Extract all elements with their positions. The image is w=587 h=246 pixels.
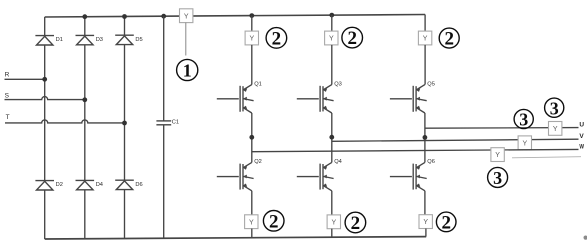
wire leg1 emitter down segment bbox=[251, 191, 253, 215]
svg-text:Q3: Q3 bbox=[334, 82, 342, 88]
wire input S with hop over column1 bbox=[5, 97, 85, 100]
svg-text:D2: D2 bbox=[56, 182, 63, 188]
diode D5 bbox=[115, 35, 134, 44]
callout circled 3 above U Y box bbox=[545, 98, 564, 118]
svg-text:D6: D6 bbox=[135, 182, 142, 188]
wire column2 lower segment bbox=[84, 190, 86, 239]
svg-text:2: 2 bbox=[269, 211, 279, 232]
diode D4 bbox=[76, 180, 95, 189]
svg-text:D3: D3 bbox=[96, 37, 103, 43]
scan speck bottom right edge bbox=[584, 236, 587, 240]
diode D2 bbox=[35, 181, 54, 190]
wire leg2 top segment bbox=[331, 15, 333, 31]
test point Y box bottom of leg1 bbox=[245, 215, 258, 229]
node leg2 midpoint dot bbox=[329, 135, 334, 140]
transistor Q5 bbox=[390, 85, 427, 113]
wire leg1 top segment bbox=[251, 16, 253, 32]
diode D6 bbox=[115, 180, 134, 189]
wire leg2 from Y box to Q3 collector bbox=[331, 45, 333, 85]
node dot top bus at column3 bbox=[122, 14, 127, 19]
callout circled 3 above V Y box bbox=[514, 109, 533, 129]
svg-text:D1: D1 bbox=[56, 37, 63, 43]
svg-text:3: 3 bbox=[519, 110, 528, 130]
svg-text:Q2: Q2 bbox=[254, 159, 262, 165]
diode D3 bbox=[76, 35, 95, 44]
callout circled 1 bbox=[177, 59, 198, 80]
callout circled 2 top leg1 bbox=[266, 28, 287, 50]
svg-text:Q5: Q5 bbox=[427, 82, 435, 88]
transistor Q6 bbox=[390, 162, 427, 190]
wire leg3 top segment bbox=[424, 15, 426, 32]
test point Y box top of leg3 bbox=[418, 31, 431, 45]
test point Y box bottom of leg2 bbox=[327, 215, 340, 229]
wire leg3 midpoint segment bbox=[424, 113, 426, 162]
transistor Q3 bbox=[297, 85, 334, 113]
callout circled 3 below W Y box bbox=[488, 167, 508, 188]
callout circled 2 bottom leg1 bbox=[263, 211, 284, 233]
wire column2 middle segment bbox=[84, 45, 86, 180]
node leg3 midpoint dot bbox=[423, 135, 428, 140]
wire leg2 emitter down segment bbox=[331, 191, 333, 215]
callout circled 2 bottom leg2 bbox=[345, 212, 366, 234]
test point Y box on U line bbox=[549, 121, 562, 135]
node T junction dot bbox=[122, 121, 127, 126]
wire leg2 midpoint segment bbox=[331, 113, 333, 162]
transistor Q1 bbox=[217, 85, 254, 113]
wire lead from Y box 1 down to circle 1 bbox=[185, 23, 187, 56]
test point Y box bottom of leg3 bbox=[419, 215, 432, 229]
wire top DC bus P rail bbox=[45, 15, 425, 18]
wire leg2 to bottom bus bbox=[331, 229, 333, 238]
wire column3 middle segment bbox=[124, 45, 126, 180]
node R junction dot bbox=[42, 77, 47, 82]
wire column1 middle segment bbox=[44, 45, 46, 180]
wire leg3 emitter down segment bbox=[424, 191, 426, 215]
wire leg3 to bottom bus corner bbox=[425, 229, 427, 237]
wire column3 lower segment bbox=[124, 190, 126, 239]
wire C1 column upper segment bbox=[163, 16, 165, 121]
wire leg1 midpoint segment bbox=[251, 113, 253, 162]
test point Y box on V line bbox=[518, 136, 531, 150]
svg-text:1: 1 bbox=[183, 60, 192, 80]
test point Y box top of leg2 bbox=[325, 31, 338, 45]
wire column1 lower segment bbox=[44, 190, 46, 239]
diode D1 bbox=[35, 36, 54, 45]
svg-text:2: 2 bbox=[441, 213, 451, 234]
svg-text:C1: C1 bbox=[172, 120, 179, 126]
svg-text:R: R bbox=[5, 71, 10, 78]
callout circled 2 top leg2 bbox=[342, 27, 363, 49]
svg-text:D5: D5 bbox=[135, 37, 142, 43]
svg-text:U: U bbox=[579, 122, 584, 129]
callout circled 2 top leg3 bbox=[439, 28, 459, 50]
node dot top bus at leg1 bbox=[249, 13, 254, 18]
wire input R bbox=[5, 78, 45, 80]
svg-text:2: 2 bbox=[347, 28, 357, 49]
transistor Q2 bbox=[217, 162, 254, 190]
svg-text:D4: D4 bbox=[96, 182, 103, 188]
node S junction dot bbox=[82, 97, 87, 102]
wire leg1 to bottom bus bbox=[251, 229, 253, 238]
test point Y box on W line bbox=[491, 148, 504, 162]
svg-text:3: 3 bbox=[550, 98, 559, 118]
svg-text:2: 2 bbox=[351, 213, 361, 234]
svg-text:Q1: Q1 bbox=[254, 82, 262, 88]
wire output U phase line bbox=[425, 127, 579, 130]
wire leg1 from Y box to Q1 collector bbox=[251, 45, 253, 85]
transistor Q4 bbox=[297, 162, 334, 190]
wire output V phase line bbox=[332, 139, 579, 141]
wire bottom DC bus N rail bbox=[45, 237, 427, 239]
svg-text:W: W bbox=[579, 144, 584, 151]
svg-text:2: 2 bbox=[444, 29, 454, 50]
capacitor C1 bbox=[156, 121, 171, 125]
svg-text:V: V bbox=[579, 133, 584, 140]
wire leg3 from Y box to Q5 collector bbox=[424, 45, 426, 85]
svg-text:T: T bbox=[6, 114, 10, 121]
svg-text:2: 2 bbox=[272, 29, 282, 50]
svg-text:Q6: Q6 bbox=[427, 159, 435, 165]
node leg1 midpoint dot bbox=[249, 135, 254, 140]
svg-text:S: S bbox=[5, 92, 10, 99]
node dot top bus at C1 bbox=[161, 14, 166, 19]
wire column2 upper segment bbox=[84, 17, 86, 36]
wire column1 upper segment bbox=[44, 17, 46, 36]
node dot top bus at leg2 bbox=[329, 13, 334, 18]
test point Y box top of leg1 bbox=[245, 31, 258, 45]
wire C1 column lower segment bbox=[163, 125, 165, 239]
wire column3 upper segment bbox=[124, 17, 126, 36]
wire input T with hops over column1 and column2 bbox=[5, 120, 125, 123]
wire output W phase line bbox=[252, 149, 579, 151]
node dot top bus at column2 bbox=[82, 14, 87, 19]
test point Y box 1 on top bus bbox=[180, 9, 193, 23]
svg-text:3: 3 bbox=[493, 168, 502, 188]
callout circled 2 bottom leg3 bbox=[436, 212, 456, 233]
svg-text:Q4: Q4 bbox=[334, 159, 342, 165]
wire faint scan artifact line bottom right bbox=[512, 157, 581, 158]
